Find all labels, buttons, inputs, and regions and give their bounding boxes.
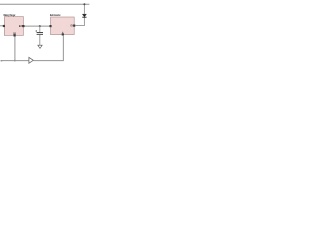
sheet block U1 Battery Charger xyxy=(4,17,23,36)
ground symbol (open arrow) xyxy=(38,45,42,48)
capacitor C1 plus sign xyxy=(35,30,37,31)
junction node at bottom wire xyxy=(14,60,16,62)
wire diode anode to top rail xyxy=(83,4,85,14)
unconnected end nub on bottom-left wire xyxy=(1,60,3,61)
wire VOUT to diode branch xyxy=(75,17,84,25)
wire amplifier output xyxy=(33,36,63,61)
pin bottom (battery charger) xyxy=(14,34,16,36)
wire capacitor to ground xyxy=(39,35,41,45)
svg-text:Battery Charger: Battery Charger xyxy=(4,14,16,18)
capacitor C1 (polarized) xyxy=(37,32,43,34)
diode D1 (triangle pointing down) xyxy=(82,14,86,17)
junction node on BAT net xyxy=(39,25,41,27)
pin left (battery charger) xyxy=(3,25,5,27)
wire top rail xyxy=(0,3,89,5)
wire bottom left (to amplifier input) xyxy=(1,60,29,62)
diode D1 (cathode bar) xyxy=(82,16,86,18)
wire battery charger bottom pin down xyxy=(14,37,16,61)
pin left (buck converter) xyxy=(49,25,51,27)
wire VIN input (left edge to battery charger left pin) xyxy=(0,25,4,27)
junction node on top rail xyxy=(83,3,85,5)
pin right (battery charger) xyxy=(22,25,24,27)
sheet block U2 Buck Converter xyxy=(51,17,75,35)
svg-text:Buck Converter: Buck Converter xyxy=(50,14,60,18)
amplifier buffer A1 xyxy=(29,57,33,63)
pin bottom (buck converter) xyxy=(62,33,64,35)
pin right (buck converter) xyxy=(73,25,75,27)
wire junction to capacitor xyxy=(39,26,41,32)
pin GND label (buck converter bottom pin) xyxy=(62,32,63,33)
wire between blocks (BAT net) xyxy=(25,25,50,27)
